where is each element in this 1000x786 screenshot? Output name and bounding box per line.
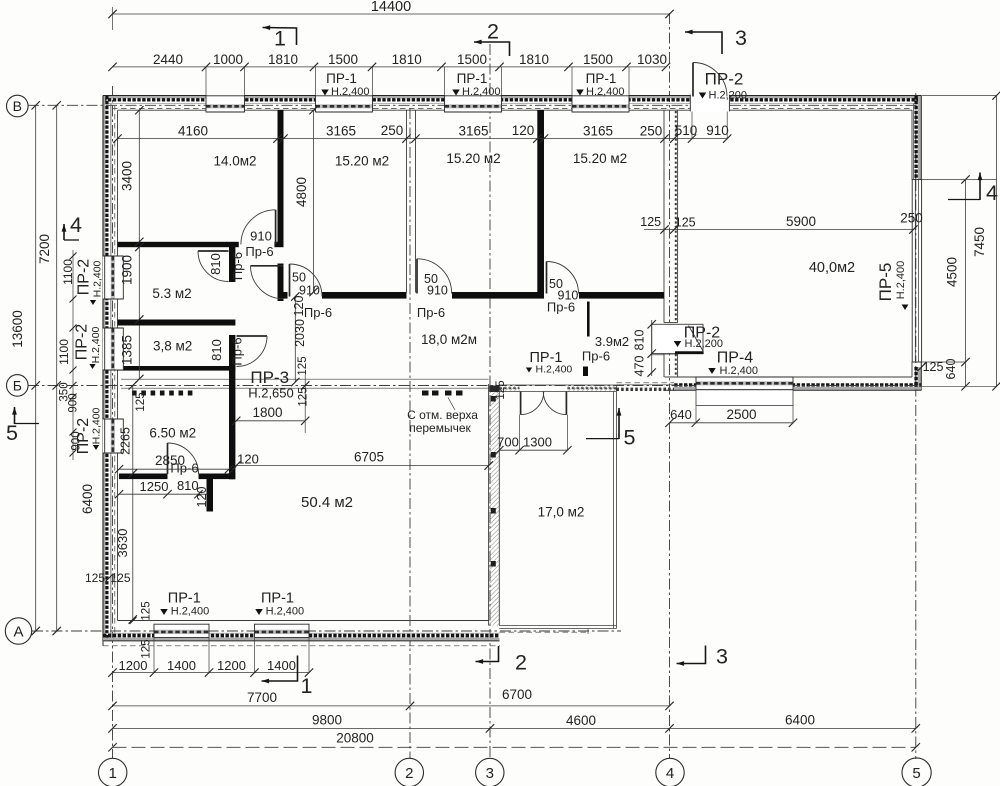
svg-text:3: 3 bbox=[486, 765, 494, 782]
svg-text:125: 125 bbox=[297, 356, 309, 375]
svg-text:6705: 6705 bbox=[354, 450, 384, 465]
svg-text:120: 120 bbox=[237, 452, 259, 467]
svg-text:2265: 2265 bbox=[119, 427, 133, 455]
svg-text:Н.2,400: Н.2,400 bbox=[720, 365, 759, 377]
svg-text:810: 810 bbox=[208, 253, 223, 275]
svg-text:1200: 1200 bbox=[119, 658, 148, 673]
svg-text:Н.2,400: Н.2,400 bbox=[462, 86, 501, 98]
svg-text:В: В bbox=[13, 98, 22, 114]
svg-text:3,8 м2: 3,8 м2 bbox=[153, 339, 192, 354]
svg-text:3165: 3165 bbox=[583, 124, 613, 139]
svg-text:2: 2 bbox=[515, 651, 527, 675]
svg-text:Н.2,400: Н.2,400 bbox=[90, 326, 102, 363]
svg-text:15.20 м2: 15.20 м2 bbox=[573, 151, 627, 166]
svg-text:125: 125 bbox=[675, 216, 696, 230]
svg-text:Н.2,400: Н.2,400 bbox=[331, 86, 370, 98]
svg-text:3630: 3630 bbox=[115, 529, 130, 558]
svg-text:4: 4 bbox=[986, 181, 998, 205]
svg-text:2500: 2500 bbox=[726, 407, 756, 422]
svg-text:ПР-2: ПР-2 bbox=[76, 259, 93, 296]
svg-text:125: 125 bbox=[110, 571, 130, 585]
svg-text:ПР-2: ПР-2 bbox=[705, 70, 744, 89]
svg-text:ПР-1: ПР-1 bbox=[326, 71, 357, 86]
svg-text:9800: 9800 bbox=[312, 713, 342, 728]
svg-text:7450: 7450 bbox=[972, 227, 987, 257]
svg-text:3: 3 bbox=[735, 26, 747, 50]
svg-text:2: 2 bbox=[405, 765, 413, 782]
svg-text:1900: 1900 bbox=[120, 255, 135, 285]
svg-text:3: 3 bbox=[716, 645, 728, 669]
svg-text:6400: 6400 bbox=[80, 484, 95, 514]
svg-text:5900: 5900 bbox=[786, 214, 816, 229]
svg-text:6400: 6400 bbox=[785, 713, 815, 728]
svg-text:ПР-3: ПР-3 bbox=[250, 368, 289, 387]
svg-text:Н.2,400: Н.2,400 bbox=[91, 407, 103, 444]
svg-text:50: 50 bbox=[292, 271, 306, 285]
svg-text:125: 125 bbox=[298, 387, 310, 406]
svg-text:250: 250 bbox=[640, 124, 663, 139]
svg-text:17,0 м2: 17,0 м2 bbox=[538, 505, 585, 520]
svg-text:2: 2 bbox=[487, 20, 499, 44]
svg-text:125: 125 bbox=[495, 380, 507, 399]
svg-text:5: 5 bbox=[912, 765, 920, 782]
svg-text:1810: 1810 bbox=[268, 52, 298, 67]
svg-text:810: 810 bbox=[209, 339, 224, 361]
svg-text:7700: 7700 bbox=[247, 690, 277, 705]
svg-text:125: 125 bbox=[141, 639, 153, 658]
svg-text:250: 250 bbox=[381, 123, 404, 138]
svg-text:4160: 4160 bbox=[178, 124, 208, 139]
svg-text:ПР-1: ПР-1 bbox=[586, 71, 617, 86]
svg-text:ПР-4: ПР-4 bbox=[717, 350, 754, 367]
svg-text:250: 250 bbox=[900, 211, 923, 226]
svg-text:640: 640 bbox=[670, 407, 692, 422]
svg-text:125: 125 bbox=[923, 360, 944, 374]
svg-text:5: 5 bbox=[624, 426, 636, 450]
svg-text:С отм. верха: С отм. верха bbox=[407, 408, 478, 422]
svg-text:1400: 1400 bbox=[167, 658, 196, 673]
svg-text:1385: 1385 bbox=[120, 335, 135, 365]
svg-text:ПР-1: ПР-1 bbox=[261, 590, 294, 606]
svg-text:120: 120 bbox=[195, 487, 209, 508]
svg-text:125: 125 bbox=[141, 601, 153, 620]
svg-text:Пр-6: Пр-6 bbox=[230, 337, 245, 365]
svg-text:1500: 1500 bbox=[457, 52, 487, 67]
svg-text:510: 510 bbox=[675, 123, 698, 138]
svg-text:910: 910 bbox=[427, 284, 448, 298]
svg-text:4800: 4800 bbox=[294, 177, 309, 207]
svg-text:1000: 1000 bbox=[213, 52, 243, 67]
svg-text:13600: 13600 bbox=[10, 310, 25, 348]
svg-text:20800: 20800 bbox=[336, 731, 374, 746]
svg-text:Н.2,400: Н.2,400 bbox=[536, 364, 573, 376]
svg-text:4: 4 bbox=[666, 765, 674, 782]
svg-text:Н.2,650: Н.2,650 bbox=[248, 386, 294, 401]
svg-text:120: 120 bbox=[512, 123, 535, 138]
svg-text:125: 125 bbox=[85, 571, 105, 585]
svg-text:1100: 1100 bbox=[61, 259, 75, 285]
svg-text:1810: 1810 bbox=[392, 52, 422, 67]
svg-text:1: 1 bbox=[274, 27, 286, 51]
svg-text:Н.2,400: Н.2,400 bbox=[266, 606, 305, 618]
svg-text:Н.2,400: Н.2,400 bbox=[92, 260, 104, 297]
svg-text:Н.2,400: Н.2,400 bbox=[171, 606, 210, 618]
svg-text:Пр-6: Пр-6 bbox=[304, 305, 332, 320]
svg-text:1250: 1250 bbox=[140, 479, 169, 494]
svg-text:4: 4 bbox=[70, 213, 82, 237]
svg-text:ПР-1: ПР-1 bbox=[168, 590, 201, 606]
svg-text:А: А bbox=[13, 623, 23, 640]
svg-text:1: 1 bbox=[301, 674, 313, 698]
svg-text:1200: 1200 bbox=[217, 658, 246, 673]
svg-text:2850: 2850 bbox=[155, 453, 185, 468]
svg-text:4600: 4600 bbox=[566, 713, 596, 728]
svg-text:2440: 2440 bbox=[153, 52, 183, 67]
svg-text:15.20 м2: 15.20 м2 bbox=[335, 154, 389, 169]
svg-text:1100: 1100 bbox=[57, 339, 71, 365]
svg-text:900: 900 bbox=[68, 393, 80, 412]
svg-text:910: 910 bbox=[299, 284, 320, 298]
svg-text:Н.2,200: Н.2,200 bbox=[685, 338, 724, 350]
svg-text:Б: Б bbox=[13, 377, 22, 393]
svg-text:3400: 3400 bbox=[120, 161, 135, 191]
svg-text:1810: 1810 bbox=[519, 52, 549, 67]
svg-text:ПР-5: ПР-5 bbox=[876, 263, 895, 302]
svg-text:2030: 2030 bbox=[293, 319, 307, 347]
svg-text:6700: 6700 bbox=[502, 687, 532, 702]
svg-text:1030: 1030 bbox=[637, 52, 667, 67]
svg-text:15.20 м2: 15.20 м2 bbox=[446, 151, 500, 166]
svg-text:Н.2,200: Н.2,200 bbox=[709, 90, 748, 102]
svg-text:Н.2,400: Н.2,400 bbox=[586, 86, 625, 98]
svg-text:18,0 м2м: 18,0 м2м bbox=[421, 332, 477, 347]
svg-text:Н.2,400: Н.2,400 bbox=[895, 261, 907, 300]
svg-text:1500: 1500 bbox=[328, 52, 358, 67]
svg-text:Пр-6: Пр-6 bbox=[417, 305, 445, 320]
svg-text:ПР-2: ПР-2 bbox=[75, 418, 92, 455]
svg-text:1800: 1800 bbox=[252, 405, 282, 420]
svg-text:ПР-2: ПР-2 bbox=[74, 324, 91, 361]
svg-text:125: 125 bbox=[640, 215, 661, 229]
svg-text:ПР-1: ПР-1 bbox=[457, 71, 488, 86]
svg-text:910: 910 bbox=[250, 228, 272, 243]
svg-text:125: 125 bbox=[135, 392, 147, 411]
svg-text:7200: 7200 bbox=[37, 234, 52, 264]
svg-text:14400: 14400 bbox=[371, 0, 411, 15]
svg-text:1500: 1500 bbox=[583, 52, 613, 67]
svg-text:4500: 4500 bbox=[945, 257, 960, 287]
svg-text:1400: 1400 bbox=[267, 658, 296, 673]
svg-text:1: 1 bbox=[109, 765, 117, 782]
svg-text:14.0м2: 14.0м2 bbox=[213, 154, 256, 169]
svg-text:700: 700 bbox=[497, 435, 519, 450]
svg-text:Пр-6: Пр-6 bbox=[245, 244, 273, 259]
svg-text:50.4 м2: 50.4 м2 bbox=[301, 494, 353, 511]
svg-text:5: 5 bbox=[6, 421, 18, 445]
svg-text:5.3 м2: 5.3 м2 bbox=[152, 286, 191, 301]
svg-text:3165: 3165 bbox=[326, 124, 356, 139]
svg-text:Пр-6: Пр-6 bbox=[230, 252, 245, 280]
svg-text:910: 910 bbox=[706, 123, 729, 138]
svg-text:40,0м2: 40,0м2 bbox=[809, 260, 855, 276]
svg-text:6.50 м2: 6.50 м2 bbox=[149, 426, 196, 441]
svg-text:810: 810 bbox=[633, 330, 647, 351]
svg-text:3.9м2: 3.9м2 bbox=[595, 334, 629, 349]
svg-text:3165: 3165 bbox=[458, 124, 488, 139]
svg-text:Пр-6: Пр-6 bbox=[582, 349, 610, 364]
svg-text:перемычек: перемычек bbox=[409, 421, 471, 435]
svg-text:Пр-6: Пр-6 bbox=[547, 300, 575, 315]
svg-text:470: 470 bbox=[633, 356, 647, 377]
svg-text:1300: 1300 bbox=[523, 435, 552, 450]
